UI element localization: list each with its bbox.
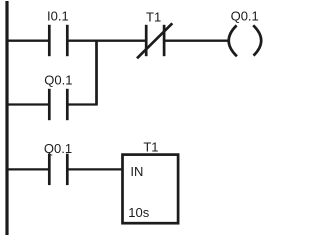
wire rung2: rail to contact Q0.1 (6, 168, 49, 170)
left power rail (5, 1, 8, 235)
svg-text:Q0.1: Q0.1 (231, 8, 259, 23)
svg-text:Q0.1: Q0.1 (44, 141, 72, 156)
wire rung1: T1 to coil (164, 40, 228, 42)
svg-text:10s: 10s (128, 205, 149, 220)
svg-text:T1: T1 (143, 140, 158, 155)
contact Q0.1 (rung2, NO) (49, 154, 67, 185)
svg-text:Q0.1: Q0.1 (44, 73, 72, 88)
wire rung1: rail to contact I0.1 (6, 40, 49, 42)
wire branch: rail to contact Q0.1 (6, 103, 49, 105)
wire branch: contact to junction (67, 103, 97, 105)
svg-text:T1: T1 (146, 9, 161, 24)
wire rung2: contact to timer box (67, 168, 123, 170)
contact T1 (NC) (137, 23, 172, 58)
contact I0.1 (NO) (49, 25, 67, 56)
svg-text:IN: IN (130, 164, 143, 179)
timer T1 function block (123, 155, 179, 224)
wire: branch vertical junction (95, 41, 98, 105)
coil Q0.1 (229, 25, 262, 56)
wire rung1: I0.1 to T1 (67, 40, 146, 42)
contact Q0.1 (parallel branch, NO) (49, 89, 67, 120)
svg-text:I0.1: I0.1 (47, 8, 69, 23)
